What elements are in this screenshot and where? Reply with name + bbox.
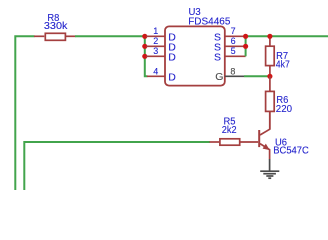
junction dot pin7 bbox=[243, 34, 248, 39]
pin 7 lead bbox=[225, 35, 246, 37]
pin 4 lead bbox=[147, 75, 165, 77]
wire: base net from lower-left vertical to R5 bbox=[24, 142, 210, 190]
wire: left vertical net from R8 corner to bottom edge bbox=[15, 36, 34, 190]
junction dot R7 bottom bbox=[267, 74, 272, 79]
wire: R8 to IC D pins bbox=[75, 35, 145, 37]
pin 8 lead (gray) bbox=[225, 75, 244, 77]
junction dot pin6 bbox=[243, 44, 248, 49]
pin 1 lead bbox=[146, 35, 165, 37]
svg-text:4k7: 4k7 bbox=[276, 60, 290, 71]
svg-text:D: D bbox=[168, 72, 176, 84]
IC U3 FDS4465 body bbox=[165, 26, 225, 85]
svg-text:8: 8 bbox=[230, 66, 235, 76]
resistor R6 bbox=[266, 76, 275, 129]
wire: emitter to ground (gray) bbox=[269, 159, 271, 171]
svg-text:2k2: 2k2 bbox=[222, 125, 237, 136]
svg-text:330k: 330k bbox=[44, 21, 69, 32]
ground bbox=[260, 171, 279, 178]
svg-text:FDS4465: FDS4465 bbox=[188, 17, 231, 28]
resistor R5 bbox=[210, 139, 259, 145]
pin 2 lead bbox=[146, 45, 165, 47]
pin 3 lead bbox=[146, 55, 165, 57]
wire: G pin to R7 bottom node bbox=[244, 75, 270, 77]
svg-text:1: 1 bbox=[153, 26, 158, 36]
wire: vertical bus joining pins 1,2,3,4 bbox=[145, 36, 148, 76]
svg-text:2: 2 bbox=[153, 36, 158, 46]
svg-text:G: G bbox=[215, 71, 223, 83]
svg-text:S: S bbox=[214, 52, 221, 64]
svg-text:6: 6 bbox=[231, 36, 236, 46]
pin 5 lead bbox=[225, 55, 246, 57]
resistor R8 bbox=[34, 33, 76, 40]
svg-text:4: 4 bbox=[153, 66, 158, 76]
svg-text:5: 5 bbox=[231, 46, 236, 56]
wire: S pins bus vertical bbox=[245, 36, 247, 56]
junction dot pin3 bbox=[142, 54, 147, 59]
wire: top supply rail to right edge bbox=[246, 35, 328, 37]
transistor U6 (NPN BC547C) bbox=[259, 112, 270, 159]
resistor R7 bbox=[266, 36, 275, 76]
svg-text:7: 7 bbox=[231, 26, 236, 36]
labels R8 / 330k bbox=[44, 13, 69, 32]
pin 6 lead bbox=[225, 45, 246, 47]
svg-text:BC547C: BC547C bbox=[273, 146, 309, 157]
junction dot pin1 bbox=[142, 34, 147, 39]
svg-text:220: 220 bbox=[276, 104, 293, 115]
svg-text:3: 3 bbox=[153, 46, 158, 56]
junction dot pin2 bbox=[142, 44, 147, 49]
junction dot R7 top bbox=[267, 34, 272, 39]
svg-text:D: D bbox=[168, 52, 176, 64]
